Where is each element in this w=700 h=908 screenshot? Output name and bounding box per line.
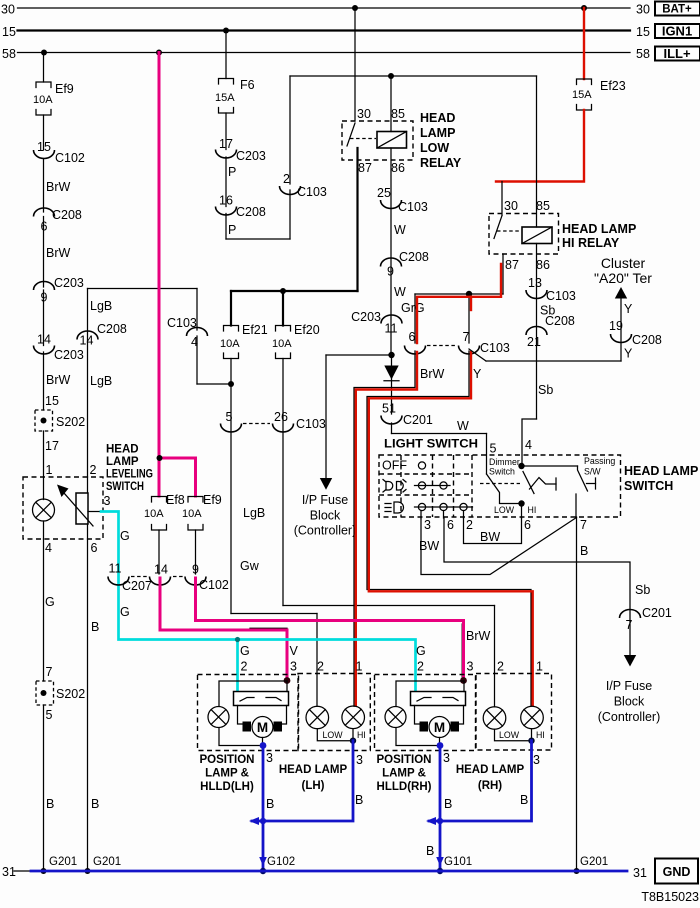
svg-text:T8B15023: T8B15023 xyxy=(641,890,699,904)
svg-text:S202: S202 xyxy=(56,415,85,429)
node bus58/HLLD junction xyxy=(156,50,162,56)
connector C103 pin 25 xyxy=(377,186,428,214)
head lamp switch title xyxy=(624,464,698,493)
LH head lamp title xyxy=(279,764,348,792)
svg-text:RELAY: RELAY xyxy=(420,156,462,170)
svg-text:BrW: BrW xyxy=(46,373,71,387)
svg-text:4: 4 xyxy=(525,438,532,452)
connector C103 pin 26 xyxy=(243,410,326,432)
svg-text:3: 3 xyxy=(104,494,111,508)
svg-text:15A: 15A xyxy=(572,89,592,101)
light switch grid xyxy=(379,455,472,517)
passing switch contact xyxy=(587,478,596,489)
wire BW pin2 to pin6 link xyxy=(464,517,522,544)
svg-text:G: G xyxy=(240,644,250,658)
wire B S202 to ground G201 xyxy=(44,705,55,871)
svg-text:14: 14 xyxy=(37,333,51,347)
svg-text:C203: C203 xyxy=(54,276,84,290)
node bus30/Ef23 junction xyxy=(581,5,587,11)
svg-text:25: 25 xyxy=(377,186,391,200)
wire stubs light switch contacts to pins xyxy=(421,504,522,519)
svg-text:85: 85 xyxy=(391,107,405,121)
svg-text:SWITCH: SWITCH xyxy=(624,479,673,493)
wire P C208-16 to C103-2 riser xyxy=(226,190,290,239)
node V feed LH xyxy=(284,677,291,684)
svg-text:Ef9: Ef9 xyxy=(203,493,222,507)
svg-text:LAMP: LAMP xyxy=(420,126,455,140)
svg-text:C207: C207 xyxy=(122,579,152,593)
dimmer switch label xyxy=(489,457,520,477)
svg-text:30: 30 xyxy=(357,107,371,121)
low relay switch blade pin30-87 xyxy=(347,123,376,146)
svg-text:87: 87 xyxy=(505,258,519,272)
dimmer blade from pin5 xyxy=(487,474,519,504)
svg-text:19: 19 xyxy=(609,319,623,333)
wire Gw Ef20 to RH low lamp xyxy=(240,359,495,707)
passing switch feed xyxy=(522,466,588,491)
wire rail to hi relay pin85 xyxy=(536,76,538,227)
connector C208 pin 14 col2 xyxy=(77,322,127,348)
wire BW pin3 to pin7 diagonal xyxy=(419,517,577,575)
svg-text:G201: G201 xyxy=(580,856,608,868)
svg-text:31: 31 xyxy=(2,865,16,879)
connector C103 pin 13 xyxy=(526,276,576,303)
G and 2 labels LH actuator xyxy=(240,644,250,674)
fuse Ef21 10A xyxy=(220,323,268,359)
svg-text:GrG: GrG xyxy=(401,301,425,315)
svg-text:BrW: BrW xyxy=(466,629,491,643)
svg-text:5: 5 xyxy=(46,708,53,722)
svg-text:LIGHT SWITCH: LIGHT SWITCH xyxy=(384,437,478,451)
wire Y C103-7 to RH hi lamp xyxy=(367,351,533,706)
terminal box GND xyxy=(655,859,698,884)
svg-text:10A: 10A xyxy=(144,508,164,520)
svg-text:LgB: LgB xyxy=(243,506,265,520)
svg-text:G: G xyxy=(120,605,130,619)
fuse Ef8 10A xyxy=(144,493,185,530)
svg-text:7: 7 xyxy=(626,618,633,632)
svg-text:W: W xyxy=(394,223,406,237)
light switch park row xyxy=(383,480,450,493)
wire W to light switch pin5 xyxy=(392,419,497,474)
svg-text:GND: GND xyxy=(663,865,691,879)
wire B leveling pin6 to ground xyxy=(88,539,100,871)
svg-text:Block: Block xyxy=(310,509,341,523)
svg-text:POSITION: POSITION xyxy=(377,754,432,766)
node LH head lamp ground xyxy=(350,738,356,744)
wire W low relay pin87 output xyxy=(231,148,358,326)
svg-text:B: B xyxy=(355,793,363,807)
svg-text:C201: C201 xyxy=(403,413,433,427)
bus 31 ground xyxy=(2,865,647,880)
hi relay coil xyxy=(522,227,552,244)
svg-text:HLLD(LH): HLLD(LH) xyxy=(200,781,254,793)
light switch OFF row xyxy=(382,459,426,473)
svg-text:B: B xyxy=(520,793,528,807)
svg-text:Y: Y xyxy=(624,347,633,361)
svg-text:LOW: LOW xyxy=(499,730,520,740)
connector C203 pin 14 xyxy=(34,333,84,363)
svg-text:11: 11 xyxy=(109,562,122,576)
svg-text:LgB: LgB xyxy=(90,299,112,313)
svg-text:31: 31 xyxy=(633,866,647,880)
head lamp LH box xyxy=(298,674,370,751)
svg-text:HLLD(RH): HLLD(RH) xyxy=(377,781,432,793)
svg-text:C208: C208 xyxy=(236,205,266,219)
svg-text:58: 58 xyxy=(2,47,16,61)
svg-text:15A: 15A xyxy=(215,92,235,104)
svg-text:ILL+: ILL+ xyxy=(663,46,690,61)
svg-text:15: 15 xyxy=(45,394,59,408)
RH head lamp internals xyxy=(483,706,543,741)
svg-text:C103: C103 xyxy=(546,289,576,303)
svg-text:14: 14 xyxy=(154,563,168,577)
light switch head row xyxy=(385,502,473,513)
ground G201 second xyxy=(85,856,122,874)
svg-text:HEAD: HEAD xyxy=(420,111,455,125)
svg-text:HEAD LAMP: HEAD LAMP xyxy=(624,464,698,478)
svg-text:S/W: S/W xyxy=(584,467,601,477)
wire bus30 to head lamp low relay pin30 xyxy=(354,8,356,121)
node BrW feed RH xyxy=(460,677,467,684)
connector C203 pin 11 xyxy=(351,310,402,336)
svg-text:OFF: OFF xyxy=(382,459,407,473)
svg-text:2: 2 xyxy=(466,518,473,532)
wire LgB Ef21 to LH low lamp xyxy=(231,359,317,707)
connector C208 pin 9 xyxy=(381,250,429,279)
svg-text:3: 3 xyxy=(424,518,431,532)
connector C102 pin 9 xyxy=(173,563,229,593)
svg-text:B: B xyxy=(580,544,588,558)
svg-text:LOW: LOW xyxy=(322,730,343,740)
fuse Ef9 10A second xyxy=(182,493,222,530)
svg-text:C208: C208 xyxy=(632,333,662,347)
svg-text:Switch: Switch xyxy=(489,467,515,477)
head lamp leveling switch title xyxy=(106,444,153,494)
svg-text:I/P Fuse: I/P Fuse xyxy=(606,679,652,693)
bus 15 IGN1 xyxy=(2,25,650,39)
dimmer HI contact spring xyxy=(530,478,557,491)
svg-text:BAT+: BAT+ xyxy=(662,4,692,16)
wire B LH head lamp to motor column xyxy=(249,741,363,825)
I/P fuse block left label xyxy=(294,493,357,538)
svg-text:3: 3 xyxy=(467,660,474,674)
node bus58/Ef9 junction xyxy=(41,50,47,56)
low hi contact node xyxy=(494,500,536,515)
svg-text:B: B xyxy=(266,797,274,811)
svg-text:C208: C208 xyxy=(399,250,429,264)
splice S202 upper xyxy=(35,410,85,431)
ground G102 xyxy=(259,856,295,874)
svg-text:I/P Fuse: I/P Fuse xyxy=(302,493,348,507)
svg-text:C103: C103 xyxy=(296,417,326,431)
svg-text:W: W xyxy=(457,419,469,433)
svg-text:6: 6 xyxy=(447,518,454,532)
svg-text:BrW: BrW xyxy=(420,367,445,381)
svg-text:15: 15 xyxy=(37,140,51,154)
connector C103 pin 7 xyxy=(427,330,510,355)
svg-text:C208: C208 xyxy=(52,208,82,222)
svg-text:Ef20: Ef20 xyxy=(294,323,320,337)
svg-text:BW: BW xyxy=(419,539,439,553)
svg-text:LOW: LOW xyxy=(420,141,449,155)
svg-text:B: B xyxy=(426,844,434,858)
svg-text:51: 51 xyxy=(382,402,396,416)
svg-text:BrW: BrW xyxy=(46,180,71,194)
lamp feed pin labels xyxy=(317,660,543,674)
wire C103-2 to relay feed rail xyxy=(290,73,537,184)
svg-text:HEAD LAMP: HEAD LAMP xyxy=(279,764,348,776)
svg-text:2: 2 xyxy=(241,660,248,674)
wire B LH motor to ground G102 xyxy=(260,742,275,871)
svg-text:C103: C103 xyxy=(480,341,510,355)
wire BrW C208 to C203 xyxy=(44,217,71,288)
ground G201 left xyxy=(41,856,78,874)
svg-text:"A20" Ter: "A20" Ter xyxy=(594,270,652,286)
svg-text:HI: HI xyxy=(536,730,545,740)
connector C203 pin 17 xyxy=(216,137,266,163)
wire magenta bus58 to HLLD fuses xyxy=(157,53,196,497)
ground G101 xyxy=(436,856,472,874)
head lamp switch box xyxy=(379,455,621,517)
node W net junction xyxy=(388,352,394,358)
wire red hi relay 87 overlay xyxy=(417,264,501,343)
wire P C203 to C208-16 xyxy=(226,157,236,207)
svg-text:LAMP: LAMP xyxy=(106,456,139,468)
svg-text:3: 3 xyxy=(533,753,540,767)
svg-text:11: 11 xyxy=(385,322,398,336)
svg-text:13: 13 xyxy=(528,276,542,290)
svg-text:LAMP &: LAMP & xyxy=(205,768,249,780)
fuse Ef9 10A xyxy=(33,82,74,115)
svg-text:Ef21: Ef21 xyxy=(242,323,268,337)
wire S202 to leveling switch pin1 xyxy=(44,431,59,477)
svg-text:P: P xyxy=(228,223,236,237)
wire BrW C102 to C208 xyxy=(44,159,71,213)
svg-text:2: 2 xyxy=(497,660,504,674)
wire Y C103-7 to cluster xyxy=(469,299,633,362)
svg-text:3: 3 xyxy=(266,751,273,765)
svg-text:10A: 10A xyxy=(220,338,240,350)
svg-text:C102: C102 xyxy=(199,578,229,592)
svg-text:Passing: Passing xyxy=(584,456,615,466)
svg-text:Block: Block xyxy=(614,695,645,709)
wire Ef9 to C102 xyxy=(43,115,45,150)
svg-text:(Controller): (Controller) xyxy=(598,710,661,724)
svg-text:LgB: LgB xyxy=(90,374,112,388)
position lamp HLLD LH box xyxy=(198,675,299,751)
svg-text:C208: C208 xyxy=(97,322,127,336)
LH position lamp internals xyxy=(208,681,289,746)
svg-text:M: M xyxy=(257,720,268,735)
head lamp leveling switch box xyxy=(23,477,103,539)
svg-text:HEAD LAMP: HEAD LAMP xyxy=(562,222,636,236)
svg-text:C103: C103 xyxy=(398,200,428,214)
svg-text:LEVELING: LEVELING xyxy=(106,469,153,481)
svg-text:30: 30 xyxy=(504,199,518,213)
svg-text:14: 14 xyxy=(80,334,94,348)
wire C203-9 to C203-14 xyxy=(43,290,45,346)
svg-text:LOW: LOW xyxy=(494,505,515,515)
connector C103 pin 2 xyxy=(280,172,327,199)
wire B RH motor to ground G101 xyxy=(426,742,452,871)
svg-text:C203: C203 xyxy=(351,310,381,324)
wire red bus30 to fuse Ef23 xyxy=(583,8,585,79)
svg-text:Dimmer: Dimmer xyxy=(489,457,520,467)
svg-text:4: 4 xyxy=(45,541,52,555)
bus 30 BAT+ xyxy=(1,3,650,17)
svg-text:G: G xyxy=(45,595,55,609)
svg-text:B: B xyxy=(46,797,54,811)
head lamp low relay title xyxy=(420,111,462,170)
wire G leveling pin4 to S202 lower xyxy=(44,539,55,681)
svg-text:5: 5 xyxy=(226,410,233,424)
svg-text:Ef9: Ef9 xyxy=(55,82,74,96)
svg-text:G: G xyxy=(416,644,426,658)
LH head lamp LOW HI labels xyxy=(322,730,365,740)
dimmer mechanical link xyxy=(480,483,520,485)
fuse F6 15A xyxy=(215,78,255,113)
position lamp HLLD RH box xyxy=(375,675,476,751)
wire low relay pin86 down xyxy=(390,148,392,355)
passing switch label xyxy=(584,456,615,477)
svg-text:7: 7 xyxy=(46,665,53,679)
node bus30/relay-low junction xyxy=(352,5,358,11)
connector C208 pin 21 xyxy=(526,314,575,349)
svg-text:9: 9 xyxy=(387,265,394,279)
svg-text:3: 3 xyxy=(290,660,297,674)
rheostat in leveling switch xyxy=(76,463,111,539)
svg-text:15: 15 xyxy=(636,25,650,39)
ground G201 right xyxy=(574,856,609,874)
terminal box ILL+ xyxy=(655,46,700,61)
svg-text:Sb: Sb xyxy=(538,383,553,397)
svg-text:1: 1 xyxy=(46,463,53,477)
svg-text:LAMP &: LAMP & xyxy=(382,768,426,780)
svg-text:HEAD: HEAD xyxy=(106,444,139,456)
wire LgB bus to leveling pin2 column xyxy=(88,289,198,478)
svg-text:58: 58 xyxy=(636,47,650,61)
svg-text:(RH): (RH) xyxy=(478,780,502,792)
svg-text:Ef8: Ef8 xyxy=(166,493,185,507)
svg-text:W: W xyxy=(394,285,406,299)
G and 2 labels RH actuator xyxy=(416,644,426,674)
connector C208 pin 16 xyxy=(216,194,266,220)
svg-text:2: 2 xyxy=(317,660,324,674)
leveling switch bottom pin labels xyxy=(45,541,98,555)
connector C103 pin 6 xyxy=(405,330,426,354)
svg-text:16: 16 xyxy=(219,194,233,208)
passing switch output stub xyxy=(575,494,577,517)
RH head lamp title xyxy=(456,764,525,792)
svg-text:2: 2 xyxy=(283,172,290,186)
connector C103 pin 5 xyxy=(221,410,242,432)
connector C102 pin 14 xyxy=(150,563,171,586)
wire red Ef23 to hi relay pin30 xyxy=(496,110,584,215)
I/P fuse block right label xyxy=(598,679,661,724)
wire B RH head lamp to motor column xyxy=(426,741,540,825)
fuse Ef23 15A xyxy=(572,79,626,110)
connector C208 pin 6 xyxy=(34,208,82,234)
svg-text:BrW: BrW xyxy=(46,246,71,260)
wire F6 to C203-17 xyxy=(225,113,227,150)
diode D1 xyxy=(384,355,399,414)
svg-text:HI RELAY: HI RELAY xyxy=(562,236,620,250)
dimmer pin4 node xyxy=(518,438,532,469)
svg-text:HI: HI xyxy=(357,730,366,740)
bus 58 ILL+ xyxy=(2,47,650,61)
wire to I/P fuse block left xyxy=(320,355,392,490)
svg-text:85: 85 xyxy=(536,199,550,213)
svg-text:V: V xyxy=(290,644,299,658)
svg-text:HI: HI xyxy=(528,505,537,515)
svg-text:C103: C103 xyxy=(297,185,327,199)
head lamp hi relay title xyxy=(562,222,636,250)
wire bus58 to fuse Ef9 xyxy=(43,53,45,83)
svg-text:3: 3 xyxy=(356,753,363,767)
svg-text:2: 2 xyxy=(90,463,97,477)
svg-text:87: 87 xyxy=(358,161,372,175)
connector C208 pin 19 xyxy=(609,319,662,347)
svg-text:10A: 10A xyxy=(272,338,292,350)
wire B pin7 to ground G201 xyxy=(577,517,589,871)
hi relay switch blade xyxy=(494,216,521,239)
svg-text:G102: G102 xyxy=(267,856,295,868)
wire V C102-14 to LH position lamp xyxy=(160,578,299,679)
svg-text:17: 17 xyxy=(45,439,59,453)
connector C207 pin 11 xyxy=(108,562,152,594)
svg-text:10A: 10A xyxy=(182,508,202,520)
svg-text:POSITION: POSITION xyxy=(200,754,255,766)
svg-text:3: 3 xyxy=(443,751,450,765)
svg-text:G101: G101 xyxy=(444,856,472,868)
RH head lamp LOW HI labels xyxy=(499,730,545,740)
wire BrW C203 to S202 xyxy=(44,352,71,410)
svg-text:10A: 10A xyxy=(33,94,53,106)
svg-text:30: 30 xyxy=(1,3,15,17)
svg-text:6: 6 xyxy=(409,330,416,344)
connector C102 pin 15 xyxy=(34,140,85,165)
svg-text:C102: C102 xyxy=(55,151,85,165)
svg-text:(Controller): (Controller) xyxy=(294,524,357,538)
lamp bulb in leveling switch xyxy=(33,477,55,539)
LH position lamp title xyxy=(200,754,255,793)
LH head lamp internals xyxy=(306,706,365,741)
svg-text:C203: C203 xyxy=(54,348,84,362)
wire bus15 to fuse F6 xyxy=(225,31,227,79)
cluster A20 terminal arrow xyxy=(594,255,652,299)
wire pin6 to I/P fuse block right xyxy=(444,517,650,667)
svg-text:SWITCH: SWITCH xyxy=(106,481,144,493)
wire hi relay 86 to dimmer pin4 xyxy=(522,244,555,464)
svg-text:7: 7 xyxy=(463,330,470,344)
svg-text:1: 1 xyxy=(356,660,363,674)
RH position lamp title xyxy=(377,754,432,793)
svg-text:1: 1 xyxy=(536,660,543,674)
svg-text:2: 2 xyxy=(417,660,424,674)
head lamp low relay box xyxy=(342,121,413,160)
wire Ef8 to C102-14 xyxy=(158,530,160,574)
wire C103-4 to Ef21 junction xyxy=(197,289,234,388)
svg-text:21: 21 xyxy=(527,335,541,349)
wire BrW C102-9 to RH position lamp xyxy=(196,578,491,679)
svg-text:15: 15 xyxy=(2,25,16,39)
svg-text:6: 6 xyxy=(91,541,98,555)
low relay coil xyxy=(377,132,407,149)
wire BrW C103-6 to LH hi lamp xyxy=(354,351,445,706)
svg-text:7: 7 xyxy=(580,518,587,532)
svg-text:Y: Y xyxy=(473,367,482,381)
